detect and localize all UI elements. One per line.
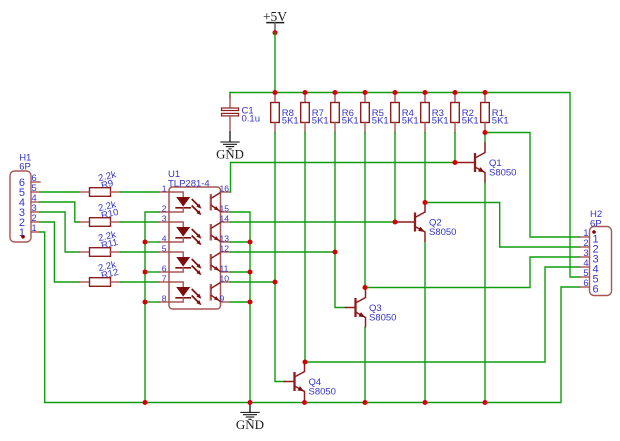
svg-text:4: 4 xyxy=(162,233,167,243)
junction emitter bus pin13 xyxy=(248,240,253,245)
transistor Q4 xyxy=(285,362,305,402)
svg-text:S8050: S8050 xyxy=(429,227,456,238)
wire U1 pin13 to emitter bus xyxy=(231,241,251,243)
svg-text:5K1: 5K1 xyxy=(282,116,299,127)
wire H1 pin2 to R12 xyxy=(40,222,80,282)
junction Q1 base / R2 xyxy=(453,160,458,165)
junction cathode bus pin6 xyxy=(143,270,148,275)
H2 pin 5 stub xyxy=(580,276,590,278)
svg-text:5K1: 5K1 xyxy=(342,116,359,127)
wire U1 pin9 to emitter bus xyxy=(231,301,251,303)
U1 channel 1 phototransistor xyxy=(211,193,221,212)
connector H2 body xyxy=(590,227,612,296)
svg-text:3: 3 xyxy=(583,248,588,258)
U1 pin 7 stub xyxy=(159,281,169,283)
H1 pin1 marker dot xyxy=(21,235,25,239)
svg-text:6P: 6P xyxy=(19,162,31,173)
junction Q2 base / R4 xyxy=(393,220,398,225)
H2 pin 3 stub xyxy=(580,256,590,258)
svg-text:8: 8 xyxy=(162,293,167,303)
H2 pin 2 stub xyxy=(580,246,590,248)
U1 pin 12 stub xyxy=(221,251,231,253)
connector H1 body xyxy=(10,171,31,242)
junction top rail at R3 xyxy=(423,90,428,95)
resistor R5 xyxy=(361,93,370,133)
H1 pin 1 stub xyxy=(31,231,40,233)
U1 channel 3 phototransistor xyxy=(211,253,221,272)
wire U1 pin11 to emitter bus xyxy=(231,271,251,273)
U1 pin 1 stub xyxy=(159,191,169,193)
svg-text:5: 5 xyxy=(583,268,588,278)
svg-text:5K1: 5K1 xyxy=(462,116,479,127)
U1 pin 2 stub xyxy=(159,211,169,213)
junction GND rail at emitter bus xyxy=(248,400,253,405)
junction emitter bus pin11 xyxy=(248,270,253,275)
wire Q2 emitter to GND rail xyxy=(424,243,426,403)
svg-text:5: 5 xyxy=(32,183,37,193)
svg-text:5K1: 5K1 xyxy=(492,116,509,127)
wire R1 column to Q1 collector xyxy=(484,133,486,144)
U1 channel 4 phototransistor xyxy=(211,283,221,302)
svg-text:4: 4 xyxy=(583,258,588,268)
U1 channel 4 light arrows xyxy=(192,289,202,305)
wire H1 pin4 to R10 xyxy=(40,202,80,222)
wire H1 pin1 to GND rail to H2 pin6 xyxy=(40,232,580,403)
wire U1 pin14 to Q2 base xyxy=(231,221,396,223)
svg-text:12: 12 xyxy=(220,243,230,253)
wire U1 pin12 to R6 column xyxy=(231,251,336,253)
wire Q1 collector to H2 pin1 xyxy=(485,133,580,238)
svg-text:2: 2 xyxy=(162,203,167,213)
U1 pin 6 stub xyxy=(159,271,169,273)
wire R7 column to Q4 collector xyxy=(304,133,306,363)
U1 channel 2 phototransistor xyxy=(211,223,221,242)
op-amp U1 body outline xyxy=(169,187,221,309)
U1 pin 3 stub xyxy=(159,221,169,223)
U1 pin 13 stub xyxy=(221,241,231,243)
junction emitter bus pin9 xyxy=(248,300,253,305)
wire +5V rail to H2 pin5 xyxy=(230,93,580,278)
wire Q3 emitter to GND rail xyxy=(364,328,366,403)
svg-text:1: 1 xyxy=(32,223,37,233)
U1 channel 1 light arrows xyxy=(192,199,202,215)
H1 pin 6 stub xyxy=(31,181,40,183)
wire U1 pin6 to cathode bus xyxy=(145,271,159,273)
capacitor C1 xyxy=(222,93,239,133)
svg-text:1: 1 xyxy=(162,183,167,193)
svg-text:14: 14 xyxy=(220,213,230,223)
U1 pin 8 stub xyxy=(159,301,169,303)
svg-text:1: 1 xyxy=(583,228,588,238)
svg-text:S8050: S8050 xyxy=(309,387,336,398)
junction top rail at R1 xyxy=(483,90,488,95)
junction R6 / U1 pin12 xyxy=(333,250,338,255)
H1 pin 4 stub xyxy=(31,201,40,203)
wire U1 pin10 to R8 column xyxy=(231,281,276,283)
resistor R8 xyxy=(271,93,280,133)
svg-text:5K1: 5K1 xyxy=(372,116,389,127)
resistor R3 xyxy=(421,93,430,133)
ground GND (top, under C1) xyxy=(216,132,244,162)
transistor Q1 xyxy=(455,143,485,183)
H2 pin 6 stub xyxy=(580,286,590,288)
U1 pin 11 stub xyxy=(221,271,231,273)
wire U1 cathode bus to GND rail xyxy=(145,212,159,403)
resistor R10 xyxy=(80,218,121,227)
svg-text:5K1: 5K1 xyxy=(402,116,419,127)
resistor R9 xyxy=(80,188,121,197)
svg-text:2: 2 xyxy=(583,238,588,248)
resistor R6 xyxy=(331,93,340,133)
wire U1 pin4 to cathode bus xyxy=(145,241,159,243)
wire R5 column to Q3 collector xyxy=(364,133,366,288)
resistor R12 xyxy=(80,278,121,287)
svg-text:3: 3 xyxy=(32,203,37,213)
U1 channel 3 LED xyxy=(169,252,190,272)
svg-text:2: 2 xyxy=(32,213,37,223)
wire R6 column to Q3 base xyxy=(335,133,346,308)
node +5V junction dot xyxy=(273,30,278,35)
junction R8 column / U1 pin10 xyxy=(273,280,278,285)
svg-text:13: 13 xyxy=(220,233,230,243)
svg-text:5K1: 5K1 xyxy=(312,116,329,127)
svg-text:GND: GND xyxy=(236,417,264,432)
svg-text:TLP281-4: TLP281-4 xyxy=(168,179,210,190)
svg-text:6: 6 xyxy=(162,263,167,273)
wire R11 to U1 xyxy=(121,251,160,253)
junction Q4 collector / R7 xyxy=(303,360,308,365)
svg-text:+5V: +5V xyxy=(263,9,287,24)
junction top rail at R2 xyxy=(453,90,458,95)
wire R4 column to Q2 base xyxy=(394,133,396,223)
junction top rail at R6 xyxy=(333,90,338,95)
wire Q4 collector to H2 pin4 xyxy=(305,267,580,362)
wire R8 column to Q4 base xyxy=(275,133,285,382)
svg-text:16: 16 xyxy=(220,183,230,193)
svg-text:9: 9 xyxy=(220,293,225,303)
transistor Q2 xyxy=(395,202,425,242)
svg-text:5: 5 xyxy=(162,243,167,253)
U1 pin 4 stub xyxy=(159,241,169,243)
U1 channel 3 light arrows xyxy=(192,259,202,275)
junction top rail at R7 xyxy=(303,90,308,95)
resistor R11 xyxy=(80,248,121,257)
resistor R1 xyxy=(481,93,490,133)
wire H1 pin3 to R11 xyxy=(40,212,80,252)
wire Q1 emitter to GND rail xyxy=(484,183,486,403)
wire U1 pin16 to Q1 base row xyxy=(231,163,456,193)
wire R2 column to Q1 base row xyxy=(454,133,456,163)
svg-text:S8050: S8050 xyxy=(369,313,396,324)
svg-text:6: 6 xyxy=(593,284,599,296)
svg-text:11: 11 xyxy=(220,263,229,273)
ground GND (bottom) xyxy=(236,403,264,433)
junction GND rail at Q2 emitter xyxy=(423,400,428,405)
svg-text:4: 4 xyxy=(32,193,37,203)
H2 pin 4 stub xyxy=(580,266,590,268)
H1 pin 3 stub xyxy=(31,211,40,213)
svg-text:6: 6 xyxy=(583,278,588,288)
junction GND rail at Q3 emitter xyxy=(363,400,368,405)
junction top rail at R4 xyxy=(393,90,398,95)
H2 pin 1 stub xyxy=(580,236,590,238)
U1 pin 14 stub xyxy=(221,221,231,223)
wire R3 column to Q2 collector xyxy=(424,133,426,203)
resistor R4 xyxy=(391,93,400,133)
resistor R7 xyxy=(301,93,310,133)
H1 pin 2 stub xyxy=(31,221,40,223)
svg-text:6P: 6P xyxy=(590,218,602,229)
U1 channel 2 LED xyxy=(169,222,190,242)
junction top rail at R8 xyxy=(273,90,278,95)
wire R10 to U1 xyxy=(121,221,160,223)
junction cathode bus pin4 xyxy=(143,240,148,245)
wire U1 pin8 to cathode bus xyxy=(145,301,159,303)
transistor Q3 xyxy=(346,288,366,328)
U1 channel 4 LED xyxy=(169,282,190,302)
U1 pin 5 stub xyxy=(159,251,169,253)
U1 pin 10 stub xyxy=(221,281,231,283)
svg-text:GND: GND xyxy=(216,148,244,162)
junction Q3 collector / R5 xyxy=(363,285,368,290)
svg-text:S8050: S8050 xyxy=(489,168,516,179)
wire Q2 collector to H2 pin2 xyxy=(425,203,580,248)
svg-text:15: 15 xyxy=(220,203,230,213)
junction GND rail at cathode bus xyxy=(143,400,148,405)
junction GND rail at Q4 emitter xyxy=(302,400,307,405)
svg-text:6: 6 xyxy=(32,173,37,183)
wire U1 emitter bus to GND xyxy=(231,212,251,403)
U1 channel 2 light arrows xyxy=(192,229,202,245)
H2 pin1 marker dot xyxy=(592,230,596,234)
svg-text:0.1u: 0.1u xyxy=(242,114,261,125)
U1 pin 16 stub xyxy=(221,191,231,193)
svg-text:7: 7 xyxy=(162,273,167,283)
wire R9 to U1 xyxy=(121,191,160,193)
junction Q2 collector / R3 xyxy=(423,200,428,205)
U1 pin 9 stub xyxy=(221,301,231,303)
wire Q3 collector to H2 pin3 xyxy=(365,257,580,288)
svg-text:10: 10 xyxy=(220,273,230,283)
wire R12 to U1 xyxy=(121,281,160,283)
U1 channel 1 LED xyxy=(169,192,190,212)
resistor R2 xyxy=(451,93,460,133)
H1 pin 5 stub xyxy=(31,191,40,193)
junction top rail at R5 xyxy=(363,90,368,95)
svg-text:5K1: 5K1 xyxy=(432,116,449,127)
junction GND rail at Q1 emitter xyxy=(483,400,488,405)
U1 pin 15 stub xyxy=(221,211,231,213)
junction cathode bus pin8 xyxy=(143,300,148,305)
wire H1 pin5 to R9 xyxy=(40,191,80,193)
svg-text:3: 3 xyxy=(162,213,167,223)
junction Q1 collector / R1 xyxy=(483,130,488,135)
+5V supply symbol xyxy=(263,9,287,33)
wire +5V stem xyxy=(274,33,276,93)
